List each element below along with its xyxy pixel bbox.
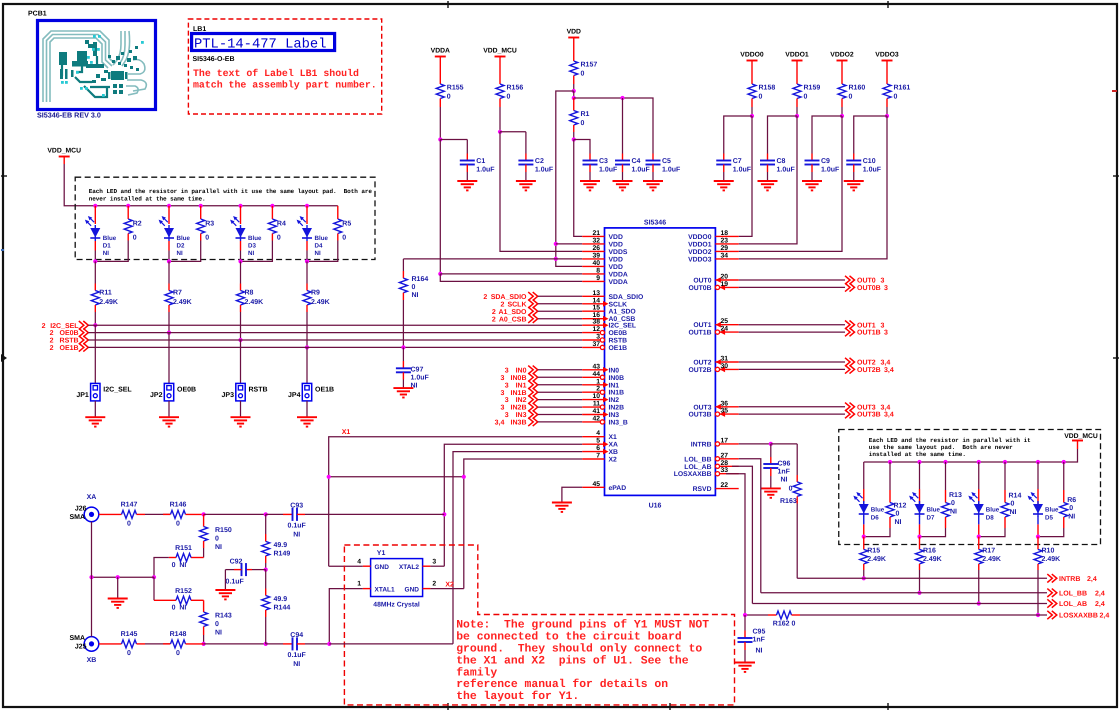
svg-text:32: 32 [592,237,600,244]
junction [126,204,130,208]
svg-text:LOL_AB: LOL_AB [684,464,711,471]
pin 20 OUT0 [715,279,738,281]
node A0_CSB off-page [528,315,538,323]
node OUT0 off-page [845,276,855,284]
pin 2 IN1B [582,391,600,393]
svg-text:RSTB: RSTB [609,338,628,345]
svg-text:VDD_MCU: VDD_MCU [1064,433,1098,440]
wire IN1B [538,391,583,393]
svg-text:VDD: VDD [609,264,623,271]
svg-text:A0_CSB: A0_CSB [499,316,527,323]
svg-text:2.49K: 2.49K [99,299,118,306]
svg-text:3: 3 [500,405,504,412]
svg-text:3: 3 [505,412,509,419]
svg-text:VDDO3: VDDO3 [688,256,712,263]
wire XB seg [145,643,171,645]
wire R12 to D6 [864,528,890,537]
resistor R163 0 [796,444,798,475]
svg-text:LOL_BB: LOL_BB [1059,590,1087,597]
junction [238,204,242,208]
svg-text:2,4: 2,4 [1087,576,1097,583]
svg-text:20: 20 [721,274,729,281]
svg-text:Note: The ground pins of Y1 M: Note: The ground pins of Y1 MUST NOT [456,619,709,632]
junction [572,89,576,93]
svg-text:OUT1: OUT1 [693,322,711,329]
svg-text:IN0: IN0 [516,367,527,374]
resistor R1 0 [573,98,575,111]
node OUT3B off-page [845,410,855,418]
wire mid gnd line [92,576,155,578]
wire VDD_MCU [499,107,501,132]
svg-text:never installed at the same ti: never installed at the same time. [89,195,206,202]
wire OUT1 [739,324,845,326]
svg-text:0.1uF: 0.1uF [288,523,307,530]
svg-text:Each LED and the resistor in p: Each LED and the resistor in parallel wi… [89,188,373,195]
wire VDD_MCU led rail [63,157,65,165]
svg-text:VDDO1: VDDO1 [688,241,712,248]
svg-text:17: 17 [721,437,729,444]
svg-text:RSTB: RSTB [249,387,268,394]
svg-text:R152: R152 [175,588,192,595]
svg-text:OUT0B: OUT0B [857,285,881,292]
resistor R152 0 NI [154,599,176,601]
junction [305,259,309,263]
svg-text:36: 36 [721,400,729,407]
svg-text:D3: D3 [248,243,256,250]
svg-text:IN1B: IN1B [609,390,625,397]
junction [554,257,558,261]
node OUT3 off-page [845,403,855,411]
svg-text:VDDA: VDDA [609,279,628,286]
resistor R150 0 NI [203,514,205,519]
wire IN0 [538,369,583,371]
svg-text:7: 7 [596,453,600,460]
wire VDD to pin21 [574,140,582,237]
junction [199,204,203,208]
pin 44 IN0B [582,376,600,378]
resistor R149 49.9 [265,514,267,534]
wire R7 to bus [168,312,170,333]
svg-text:OUT0: OUT0 [693,278,711,285]
svg-text:1: 1 [596,378,600,385]
wire XA seg [145,513,171,515]
pin 33 LOSXAXBB [720,473,739,475]
svg-text:XTAL2: XTAL2 [399,564,419,571]
resistor R143 0 NI [203,600,205,612]
svg-text:0: 0 [127,650,131,657]
power VDD_MCU led array 2 [1072,440,1083,442]
node IN2 off-page [528,395,538,403]
wire OUT0 [739,279,845,281]
pin 21 VDD [582,235,604,237]
wire VDDA pin8 [440,273,582,275]
svg-text:24: 24 [721,326,729,333]
svg-text:41: 41 [592,408,600,415]
svg-text:R163: R163 [780,498,797,505]
svg-text:IN2B: IN2B [609,405,625,412]
wire VDDO3 [886,107,888,116]
svg-text:2.49K: 2.49K [311,299,330,306]
svg-text:SMA: SMA [69,635,85,642]
junction [462,475,466,479]
node IN0 off-page [528,366,538,374]
svg-text:1.0uF: 1.0uF [777,167,796,174]
svg-text:3,4: 3,4 [884,412,894,419]
label LB1 note box [188,19,381,114]
svg-text:C1: C1 [476,158,485,165]
ground [844,180,864,182]
wire VDDO3 to chip [739,116,887,259]
wire OE1B bus [88,346,582,348]
svg-text:NI: NI [781,477,788,484]
svg-text:18: 18 [721,230,729,237]
svg-text:R10: R10 [1042,548,1055,555]
junction [769,442,773,446]
svg-text:0: 0 [894,94,898,101]
junction [270,204,274,208]
svg-text:Blue: Blue [927,507,941,514]
svg-text:0: 0 [277,235,281,242]
svg-text:INTRB: INTRB [691,441,712,448]
PCB copper traces [43,31,146,102]
svg-text:C96: C96 [778,461,791,468]
svg-text:38: 38 [592,319,600,326]
ground [735,662,755,664]
pin 1 IN1 [582,384,604,386]
svg-text:X1: X1 [342,429,351,436]
capacitor C9 1.0uF [811,154,813,161]
svg-text:OUT1B: OUT1B [857,330,881,337]
wire IN2 [538,399,583,401]
node OUT2B off-page [845,365,855,373]
power VDDA [435,56,446,58]
svg-text:D7: D7 [927,515,935,522]
svg-text:XTAL1: XTAL1 [375,586,395,593]
junction [917,460,921,464]
junction [442,512,446,516]
ground ePAD [562,487,582,502]
wire OUT1B [739,331,845,333]
node RSTB off-page [79,336,89,344]
svg-text:40: 40 [592,260,600,267]
svg-text:LOSXAXBB: LOSXAXBB [674,471,712,478]
resistor R162 0 [768,614,777,616]
wire R9 to bus [306,312,308,347]
svg-text:R162 0: R162 0 [773,621,796,628]
svg-text:reference manual for details o: reference manual for details on [456,678,668,691]
svg-text:3: 3 [505,382,509,389]
svg-text:1.0uF: 1.0uF [535,167,554,174]
wire SCLK [538,303,583,305]
svg-text:NI: NI [248,250,254,257]
junction [1036,460,1040,464]
svg-text:C97: C97 [411,366,424,373]
svg-text:OUT3B: OUT3B [857,412,881,419]
node IN3 off-page [528,410,538,418]
svg-text:IN3: IN3 [516,412,527,419]
svg-text:2: 2 [492,316,496,323]
wire VDD mid [573,91,575,98]
svg-text:2,4: 2,4 [1095,590,1105,597]
svg-text:2: 2 [596,386,600,393]
svg-text:29: 29 [721,245,729,252]
wire VDD_MCU rail 2 [1077,441,1079,450]
svg-text:VDD: VDD [609,234,623,241]
svg-text:OUT1: OUT1 [857,322,876,329]
svg-text:SI5346-O-EB: SI5346-O-EB [193,56,235,63]
svg-text:OE1B: OE1B [609,345,628,352]
wire IN3 [538,414,583,416]
svg-text:R2: R2 [133,221,142,228]
svg-text:OE0B: OE0B [60,330,79,337]
pin 19 OUT0B [720,286,739,288]
node IN3B off-page [528,418,538,426]
svg-text:0: 0 [789,486,793,493]
wire VDDO2 [841,107,843,116]
pin 42 IN3_B [582,421,600,423]
svg-text:OUT0: OUT0 [857,278,876,285]
wire OUT2 [739,361,845,363]
svg-text:SMA: SMA [69,514,85,521]
svg-text:OUT3B: OUT3B [688,412,711,419]
wire GND4 to X1 [329,565,363,567]
svg-text:XA: XA [87,494,97,501]
pin 1 XTAL1 [363,588,371,590]
svg-text:PTL-14-477 Label: PTL-14-477 Label [194,38,326,53]
svg-text:2: 2 [50,330,54,337]
pin 24 OUT1B [720,331,739,333]
op-amp U16 SI5346 body [605,228,716,496]
svg-text:R4: R4 [277,221,286,228]
junction [167,331,171,335]
svg-text:3: 3 [596,334,600,341]
svg-text:J26: J26 [75,506,87,513]
capacitor C2 1.0uF [525,154,527,161]
svg-text:0: 0 [951,500,955,507]
junction [238,338,242,342]
svg-text:0: 0 [581,71,585,78]
ground [224,570,226,590]
note box Y1 [344,545,734,705]
svg-text:the X1 and X2 pins of U1. See: the X1 and X2 pins of U1. See the [456,654,689,667]
svg-text:D4: D4 [315,243,323,250]
svg-text:5: 5 [596,438,600,445]
wire R144 to XB [265,617,267,644]
pin 18 VDDO0 [715,235,738,237]
svg-text:3,4: 3,4 [495,420,505,427]
svg-text:INTRB: INTRB [1059,576,1080,583]
svg-text:R159: R159 [804,85,821,92]
svg-text:C4: C4 [632,158,641,165]
svg-text:JP3: JP3 [222,392,235,399]
svg-text:RSTB: RSTB [60,338,79,345]
node IN0B off-page [528,373,538,381]
svg-text:OUT3: OUT3 [857,404,876,411]
svg-text:C9: C9 [821,158,830,165]
svg-text:0: 0 [759,94,763,101]
svg-text:JP4: JP4 [288,392,301,399]
junction [750,114,754,118]
svg-text:0: 0 [507,94,511,101]
svg-text:C3: C3 [599,158,608,165]
svg-text:IN3B: IN3B [511,420,527,427]
svg-text:19: 19 [721,281,729,288]
svg-text:12: 12 [592,326,600,333]
svg-text:2.49K: 2.49K [982,556,1001,563]
wire IN1 [538,384,583,386]
junction [116,575,120,579]
wire LOL_BB row [761,592,1047,594]
pin 15 A1_SDO [582,310,604,312]
svg-text:R145: R145 [121,631,138,638]
svg-text:44: 44 [592,371,600,378]
svg-text:4: 4 [596,430,600,437]
svg-text:27: 27 [721,452,729,459]
resistor R160 0 [841,61,843,85]
pin 13 SDA_SDIO [582,295,604,297]
svg-text:1.0uF: 1.0uF [632,167,651,174]
svg-text:0: 0 [1011,501,1015,508]
pin 11 IN2B [582,406,600,408]
svg-text:VDDO2: VDDO2 [688,249,712,256]
svg-text:1.0uF: 1.0uF [476,167,495,174]
svg-text:2.49K: 2.49K [245,299,264,306]
wire LOSXAXBB row [745,614,768,616]
LED D6 Blue [863,462,865,489]
svg-text:Blue: Blue [871,507,885,514]
resistor R15 2.49K [863,537,865,550]
power VDDO0 [747,60,758,62]
ground [168,401,170,417]
node OE1B off-page [79,343,89,351]
svg-text:match the assembly part number: match the assembly part number. [193,80,377,91]
junction [572,96,576,100]
node SDA_SDIO off-page [528,292,538,300]
svg-text:NI: NI [293,532,300,539]
svg-text:The text of Label LB1 should: The text of Label LB1 should [193,68,359,79]
wire VDD caps C4 C5 [574,98,653,154]
pin 2 GND [423,588,431,590]
junction [888,460,892,464]
svg-text:U16: U16 [649,503,662,510]
wire R6 to D5 [1038,528,1064,537]
pin 37 OE1B [582,346,600,348]
node LOL_BB off-page [1047,589,1057,597]
svg-text:0: 0 [215,621,219,628]
junction [1036,613,1040,617]
svg-text:R147: R147 [121,502,138,509]
svg-text:OE1B: OE1B [60,345,79,352]
svg-text:SCLK: SCLK [609,301,628,308]
svg-text:SDA_SDIO: SDA_SDIO [491,294,527,301]
svg-text:23: 23 [721,237,729,244]
resistor R145 0 [99,643,122,645]
svg-text:R151: R151 [175,545,192,552]
junction [498,130,502,134]
capacitor C96 1nF NI [770,444,772,457]
resistor R10 2.49K [1037,537,1039,550]
wire VDD [573,84,575,91]
svg-text:42: 42 [592,415,600,422]
wire OE0B bus [88,332,582,334]
ground [758,180,778,182]
svg-text:45: 45 [592,481,600,488]
svg-text:Blue: Blue [1045,507,1059,514]
pin 34 VDDO3 [715,258,738,260]
svg-text:1.0uF: 1.0uF [863,167,882,174]
resistor R16 2.49K [919,537,921,550]
svg-text:R6: R6 [1067,497,1076,504]
wire A1_SDO [538,310,583,312]
svg-text:LOL_BB: LOL_BB [684,456,711,463]
node SCLK off-page [528,300,538,308]
svg-text:4: 4 [357,558,361,565]
svg-text:J25: J25 [75,643,87,650]
node INTRB off-page [1047,574,1057,582]
svg-text:A1_SDO: A1_SDO [498,309,527,316]
svg-text:26: 26 [592,245,600,252]
svg-text:NI: NI [177,250,183,257]
svg-text:R148: R148 [170,631,187,638]
svg-text:6: 6 [596,445,600,452]
svg-text:X1: X1 [609,434,618,441]
wire XA [444,444,582,566]
svg-text:X2: X2 [609,457,618,464]
ground [714,180,734,182]
pin 28 LOL_AB [720,465,739,467]
wire R3 to D2 [169,241,201,262]
power VDDO3 [882,60,893,62]
svg-text:D6: D6 [871,515,879,522]
wire VDDO1 to chip [739,116,797,244]
pin 41 IN3 [582,414,604,416]
wire OUT2B [739,368,845,370]
svg-text:R160: R160 [849,85,866,92]
svg-text:0: 0 [133,235,137,242]
junction [305,204,309,208]
svg-text:VDD_MCU: VDD_MCU [47,148,81,155]
pin 16 A0_CSB [582,318,604,320]
svg-text:R7: R7 [173,290,182,297]
svg-text:SDA_SDIO: SDA_SDIO [609,294,644,301]
ground [457,180,477,182]
svg-text:LOL_AB: LOL_AB [1059,601,1087,608]
pin 7 X2 [582,458,604,460]
wire VDDA [439,107,441,140]
ground [393,387,413,389]
pin 23 VDDO1 [715,243,738,245]
junction [917,535,921,539]
junction [977,601,981,605]
svg-text:R5: R5 [342,221,351,228]
svg-text:OE0B: OE0B [177,387,196,394]
svg-text:IN1B: IN1B [511,390,527,397]
resistor R7 2.49K [168,261,170,283]
svg-text:R12: R12 [894,503,907,510]
svg-text:D5: D5 [1045,515,1053,522]
ground [240,401,242,417]
wire SDA_SDIO [538,295,583,297]
svg-text:0.1uF: 0.1uF [288,652,307,659]
wire R5 to D4 [307,241,338,262]
wire LOL_AB [732,466,752,603]
power VDDO2 [837,60,848,62]
pin 17 INTRB [720,443,739,445]
svg-text:0: 0 [205,235,209,242]
svg-text:2,4: 2,4 [1100,613,1110,620]
wire X2 [464,459,582,589]
wire XA-XB shield [91,522,93,637]
